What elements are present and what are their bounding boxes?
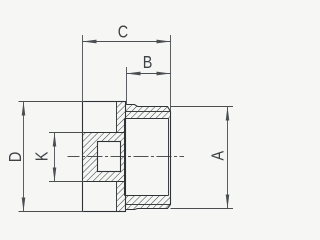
thread line top [126,111,171,113]
hatch flange right strip [117,102,126,212]
hatch cylinder top wall [126,105,171,119]
dim A arrow bottom [226,195,230,209]
dim C extension left [82,35,84,102]
dim D extension top [19,101,85,103]
svg-text:D: D [5,152,25,162]
dim B arrow right [157,72,171,76]
cylinder outline [126,105,171,210]
mouth inner edge line [168,119,170,196]
large socket interior (white) [125,119,171,196]
dim B line [127,73,171,75]
dim A extension top [171,106,234,108]
dim D arrow top [22,102,26,116]
svg-text:A: A [208,151,228,161]
svg-text:K: K [32,151,52,161]
dim B extension left [126,67,128,105]
socket inner end face [124,119,126,196]
dim C extension right [170,35,172,112]
K band bottom edge [83,181,126,183]
dim K extension top [49,132,84,134]
dim C arrow left [83,40,97,44]
dim D line [23,102,25,212]
dim A extension bottom [171,208,234,210]
flange outline [83,102,126,212]
K band top edge [83,132,126,134]
flange right face line [125,102,127,212]
svg-text:B: B [143,52,153,72]
svg-text:C: C [118,22,129,42]
square hole outline [98,142,121,172]
dim C arrow right [157,40,171,44]
square socket hole (white) [98,142,121,172]
dim C line [83,41,171,43]
dim D extension bottom [19,211,85,213]
dim K arrow top [53,133,57,147]
dim K arrow bottom [53,168,57,182]
dim A line [227,107,229,209]
socket bore bottom edge [125,195,169,197]
dim A arrow top [226,107,230,121]
hatch flange mid band [83,133,126,182]
dim K extension bottom [49,181,84,183]
centerline [68,156,185,158]
hatch cylinder bottom wall [126,196,171,210]
dim K line [54,133,56,182]
strip boundary line top [116,102,118,133]
dim B arrow left [127,72,141,76]
socket bore top edge [125,118,169,120]
thread line bottom [126,204,171,206]
strip boundary line bottom [116,182,118,212]
dim D arrow bottom [22,198,26,212]
